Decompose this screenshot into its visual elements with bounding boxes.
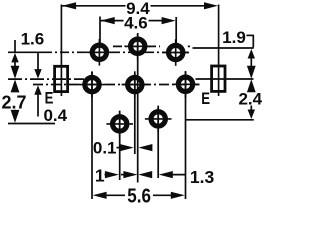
extension vertical ML x=92 (91, 72, 93, 199)
hole MC (122, 71, 149, 98)
extension vertical BL x=119.7 (119, 111, 121, 180)
svg-text:0.4: 0.4 (43, 106, 67, 125)
svg-text:1.9: 1.9 (222, 28, 246, 47)
hole TR (162, 39, 189, 66)
extension vertical TR x=175.3 (175, 17, 177, 45)
extension line right slot center vertical x=217.9 (218, 5, 220, 97)
centerline row TM (dash-dot y=46.4) (113, 45, 160, 47)
slot E left (55, 66, 68, 91)
dim 9.4 line (62, 5, 126, 7)
svg-text:1.3: 1.3 (190, 167, 215, 187)
hole ML (79, 71, 106, 98)
svg-text:0.1: 0.1 (93, 139, 117, 158)
left slot center line (y=79.1) (8, 78, 84, 80)
slot E right (212, 66, 225, 91)
svg-text:E: E (201, 90, 210, 108)
dim 1.3 (138, 171, 152, 178)
hole TL (86, 39, 113, 66)
svg-text:1.6: 1.6 (21, 30, 45, 49)
svg-text:E: E (45, 90, 54, 108)
right slot center line (y=79) (196, 78, 254, 80)
hole BR (145, 106, 172, 133)
svg-text:5.6: 5.6 (127, 185, 151, 204)
extension vertical TL x=98.9 (99, 17, 101, 45)
dim 1.9 arrows (248, 49, 255, 59)
centerline row TL/TR solid shelf left (8, 51, 43, 53)
extension line left slot center vertical x=61.4 (60, 5, 62, 97)
hole MR (172, 71, 199, 98)
svg-text:4.6: 4.6 (124, 13, 148, 32)
left bottom extension line (y=123.5) (8, 123, 55, 125)
shelf line for 1.9 (y=48) (193, 47, 254, 49)
dim 4.6 line (100, 20, 124, 22)
dim 0.4 assembly (37, 53, 39, 71)
main horizontal centerline (dash-dot y=84.5) (33, 84, 200, 86)
dim 1.6 vertical line (14, 40, 16, 52)
svg-text:1: 1 (95, 166, 105, 186)
dim 2.4 arrows (bowtie below slot line) (247, 79, 256, 92)
extension vertical BR x=158.2 (157, 107, 159, 178)
hole BL (106, 111, 133, 138)
extension vertical MC stub x=134.8 (134, 74, 136, 155)
dim 2.7 bowtie and line (11, 79, 20, 92)
hole TM (124, 33, 151, 60)
centerline row TL/TR (dash-dot y=52.3) (43, 51, 188, 53)
extension vertical MR x=185.5 (185, 72, 187, 199)
extension vertical TM x=137.7 (137, 34, 139, 183)
right bottom extension line (y=119) (186, 119, 254, 121)
dim 5.6 (93, 192, 107, 199)
svg-text:2.7: 2.7 (1, 93, 26, 113)
dim 1.9 leader (246, 34, 253, 36)
